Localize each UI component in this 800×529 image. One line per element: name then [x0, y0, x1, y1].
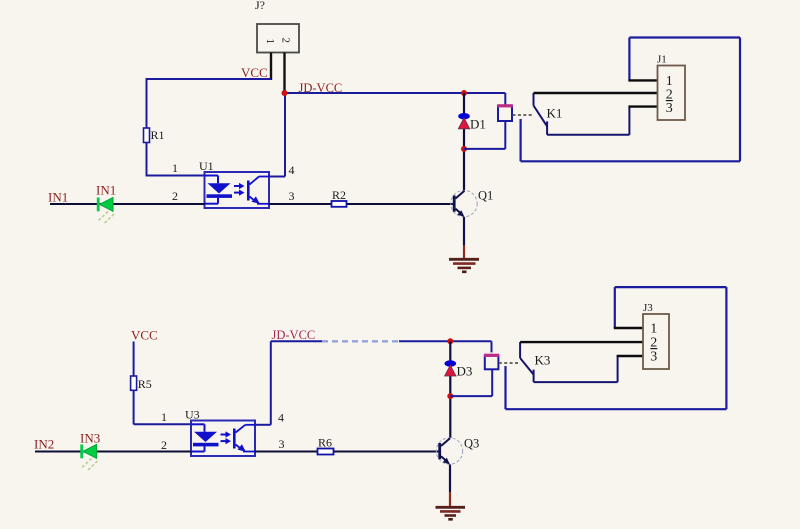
svg-text:IN1: IN1: [48, 190, 68, 205]
svg-text:K1: K1: [547, 106, 563, 121]
svg-text:J1: J1: [657, 54, 667, 66]
svg-text:3: 3: [289, 189, 295, 203]
svg-text:4: 4: [289, 163, 295, 177]
svg-text:1: 1: [161, 410, 167, 424]
svg-text:JD-VCC: JD-VCC: [272, 328, 316, 342]
svg-text:Q1: Q1: [478, 189, 493, 203]
svg-text:R6: R6: [318, 436, 332, 450]
svg-text:4: 4: [278, 411, 284, 425]
svg-text:U3: U3: [185, 408, 200, 422]
svg-text:3: 3: [666, 101, 673, 116]
svg-text:U1: U1: [199, 159, 214, 173]
svg-text:1: 1: [650, 322, 657, 337]
svg-text:2: 2: [161, 438, 167, 452]
svg-text:R5: R5: [138, 377, 152, 391]
svg-text:R1: R1: [151, 128, 165, 142]
svg-text:2: 2: [172, 189, 178, 203]
svg-text:J?: J?: [255, 0, 265, 12]
svg-text:D1: D1: [470, 117, 486, 132]
svg-text:3: 3: [650, 350, 657, 365]
svg-text:1: 1: [172, 161, 178, 175]
svg-text:IN3: IN3: [80, 431, 100, 446]
svg-text:IN1: IN1: [96, 183, 116, 198]
svg-text:D3: D3: [457, 364, 473, 379]
svg-text:JD-VCC: JD-VCC: [299, 81, 343, 95]
svg-text:3: 3: [279, 437, 285, 451]
svg-text:IN2: IN2: [34, 437, 54, 452]
svg-text:R2: R2: [332, 188, 346, 202]
svg-text:J3: J3: [643, 302, 653, 314]
svg-text:VCC: VCC: [241, 65, 268, 80]
svg-text:K3: K3: [535, 353, 551, 368]
svg-text:Q3: Q3: [464, 437, 479, 451]
svg-text:2: 2: [280, 38, 292, 44]
svg-text:VCC: VCC: [131, 328, 158, 343]
svg-text:1: 1: [264, 39, 276, 45]
